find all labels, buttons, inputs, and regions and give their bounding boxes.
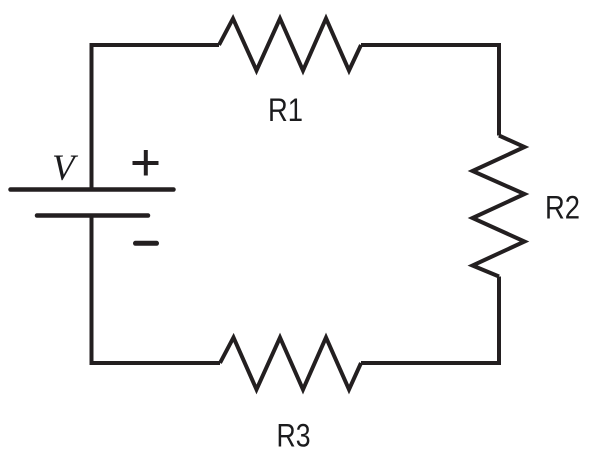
battery V negative plate bbox=[37, 213, 148, 218]
resistor R1 bbox=[219, 19, 361, 71]
svg-text:R3: R3 bbox=[277, 418, 311, 454]
wire top-right: from R1 across and down to R2 bbox=[361, 45, 499, 136]
minus sign bbox=[136, 241, 157, 246]
wire bottom-left: from R3 across and up to battery bottom plate bbox=[92, 216, 221, 364]
svg-text:V: V bbox=[52, 148, 79, 189]
plus sign bbox=[133, 150, 159, 176]
svg-text:R2: R2 bbox=[545, 190, 580, 226]
wire bottom-right: from R2 down and across to R3 bbox=[361, 277, 499, 364]
wire top-left: from battery top plate up and across to R1 bbox=[92, 45, 220, 189]
svg-text:R1: R1 bbox=[268, 92, 303, 128]
resistor R3 bbox=[220, 338, 361, 390]
resistor R2 bbox=[473, 136, 525, 277]
battery V positive plate bbox=[11, 187, 174, 192]
